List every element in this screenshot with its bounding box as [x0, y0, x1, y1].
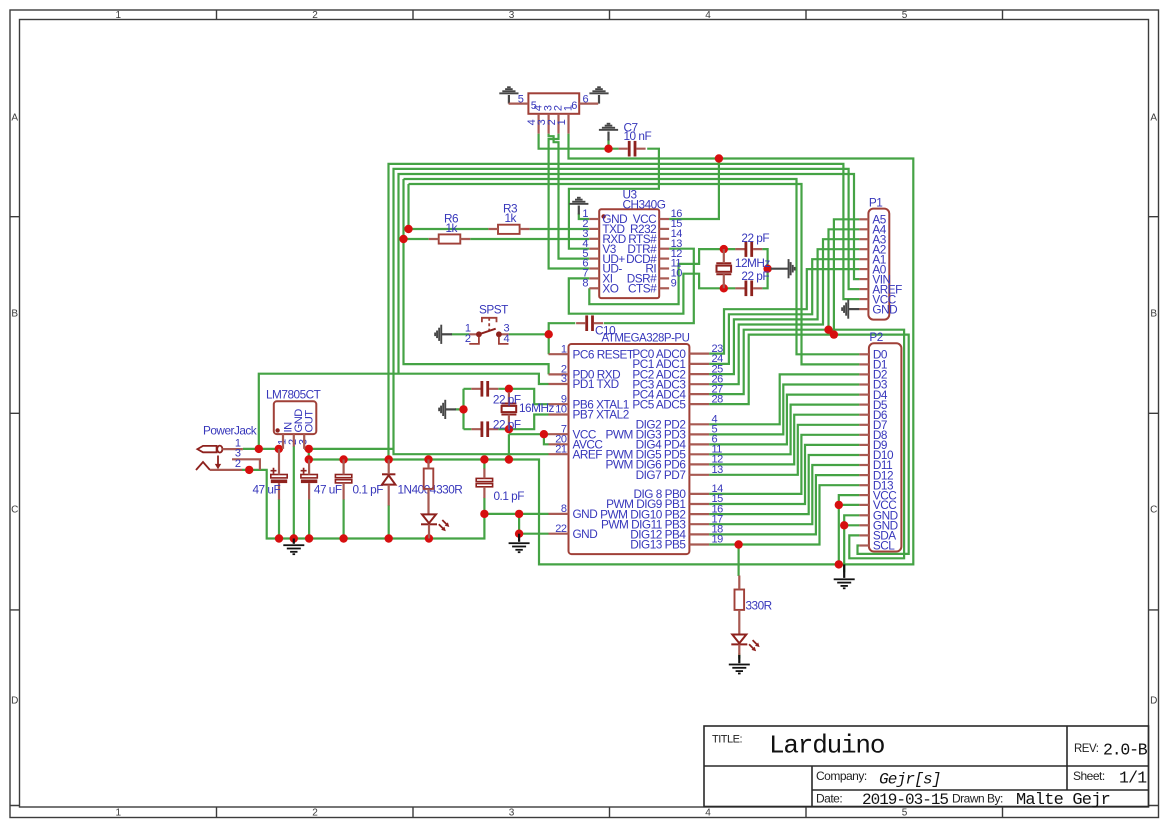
IC1 pin 15 PWM DIG9 PB1 — [689, 503, 709, 505]
svg-text:D: D — [1150, 696, 1157, 707]
wire: cap risers green parts — [279, 499, 389, 539]
svg-text:CTS#: CTS# — [628, 282, 657, 296]
svg-text:CH340G: CH340G — [623, 197, 666, 211]
junction: jack pin2 — [245, 466, 253, 474]
P2 pin 11 D10 — [859, 454, 869, 456]
wire: USB pin4 to C7 left / GND net — [539, 134, 619, 149]
junction: C3 bottom — [339, 534, 347, 542]
IC1 pin 1 PC6 RESET — [549, 353, 569, 355]
svg-text:330R: 330R — [746, 598, 772, 612]
junction: C7 left / GND — [604, 145, 612, 153]
wire: A5/SCL net — [709, 335, 909, 554]
U3 pin 7 XI — [589, 277, 599, 279]
P1 pin VCC — [859, 298, 868, 300]
svg-text:22 pF: 22 pF — [741, 231, 769, 245]
wire: R6 line to CH340 RXD — [404, 238, 590, 240]
junction: A5 vert / SCL line — [830, 330, 838, 338]
svg-text:PC6 RESET: PC6 RESET — [573, 347, 634, 361]
junction: C1 bottom — [275, 534, 283, 542]
svg-text:28: 28 — [712, 393, 724, 405]
wire: gnd stem above C7 — [607, 140, 609, 149]
svg-text:GND: GND — [573, 527, 598, 541]
wire: VCC bus line to P1 VCC — [389, 164, 860, 460]
USB connector J1 — [528, 93, 579, 114]
capacitor 47uF (C1) — [271, 475, 287, 478]
wire: LM7805 gnd stem — [293, 446, 295, 539]
wire: AREF net P1 to ATMEGA pin21 — [394, 169, 860, 454]
junction: C1 top — [275, 445, 283, 453]
wire: 16MHz top cap line to ATMEGA pin9 — [464, 389, 549, 404]
capacitor C10 — [585, 315, 588, 331]
svg-text:0.1 pF: 0.1 pF — [494, 489, 525, 503]
IC1 pin 25 PC2 ADC2 — [689, 373, 709, 375]
wire: D2 net ATMEGA to P2 — [709, 374, 859, 424]
resistor 330R (power) — [424, 469, 434, 489]
U3 pin 14 RTS# — [659, 238, 669, 240]
U3 pin 3 RXD — [589, 238, 599, 240]
wire: 7805 OUT short rail — [304, 448, 393, 450]
resistor R6 1k — [439, 234, 461, 243]
P2 pin 8 D7 — [859, 424, 869, 426]
svg-text:PowerJack: PowerJack — [203, 423, 257, 437]
wire: VIN from jack up to ATMEGA pin3 — [259, 374, 549, 449]
wire: D6 net ATMEGA to P2 — [709, 415, 859, 465]
U3 pin 5 UD+ — [589, 258, 599, 260]
junction: OUT stem — [305, 445, 313, 453]
svg-text:B: B — [11, 309, 18, 320]
P2 pin 4 D3 — [859, 383, 869, 385]
P2 pin 15 VCC — [859, 494, 869, 496]
svg-text:PD1 TXD: PD1 TXD — [573, 377, 619, 391]
IC1 pin 6 DIG4 PD4 — [689, 443, 709, 445]
wire: USB D- crossover to CH340 UD- pin6 — [549, 134, 590, 269]
IC1 pin 10 PB7 XTAL2 — [549, 413, 569, 415]
junction: VCC pin7 — [540, 430, 548, 438]
switch SPST — [482, 318, 497, 323]
wire: LED2 cathode to earth — [738, 654, 740, 659]
wire: VCC trunk from USB pin1 along bus to P2 side and VCC rail — [509, 134, 913, 565]
svg-text:1k: 1k — [505, 211, 517, 225]
junction: GND pin8 / C4 — [480, 510, 488, 518]
svg-text:Drawn By:: Drawn By: — [952, 792, 1003, 806]
svg-text:Larduino: Larduino — [769, 731, 884, 761]
P1 pin A5 — [859, 218, 868, 220]
wire: VIN bus line to P1 VIN — [399, 174, 860, 374]
junction: LED1 cathode — [425, 534, 433, 542]
P2 pin 3 D2 — [859, 373, 869, 375]
svg-text:1: 1 — [561, 343, 567, 355]
wire: power jack pin2/3 down to gnd rail — [242, 470, 549, 539]
P2 pin 20 SCL — [859, 544, 869, 546]
junction: VCC bus / CH340 VCC — [715, 154, 723, 162]
wire: D11 net ATMEGA to P2 — [709, 465, 859, 524]
capacitor 0.1pF (C4) — [476, 478, 492, 481]
svg-text:DIG13 PB5: DIG13 PB5 — [630, 538, 686, 552]
P2 pin 13 D12 — [859, 474, 869, 476]
junction: R6 / RX bus — [399, 235, 407, 243]
svg-text:XO: XO — [602, 282, 618, 296]
crystal 16MHz — [501, 404, 516, 415]
connector P2 — [869, 343, 902, 551]
svg-text:SCL: SCL — [873, 539, 895, 553]
IC1 pin 27 PC4 ADC4 — [689, 393, 709, 395]
earth ground below ATMEGA GND — [518, 534, 520, 542]
IC1 pin 28 PC5 ADC5 — [689, 403, 709, 405]
P1 pin A4 — [859, 228, 868, 230]
wire: 0.1pF cap near ATMEGA — [483, 460, 485, 514]
ground (stacked) above C7 — [607, 132, 609, 141]
U3 pin 13 DTR# — [659, 248, 669, 250]
P2 pin 19 SDA — [859, 534, 869, 536]
capacitor C7 10nF — [628, 141, 631, 157]
earth ground below P2 GND — [843, 564, 845, 578]
junction: 12MHz top — [720, 245, 728, 253]
svg-text:22 pF: 22 pF — [493, 418, 521, 432]
IC1 pin 9 PB6 XTAL1 — [549, 403, 569, 405]
junction: C3 top — [339, 455, 347, 463]
wire: RX bus line to P2 D0 — [404, 179, 860, 354]
U3 pin 15 R232 — [659, 228, 669, 230]
svg-text:OUT: OUT — [304, 410, 316, 433]
wire: ATMEGA gnd riser pin8 to pin22 — [519, 514, 548, 534]
IC1 pin 16 PWM DIG10 PB2 — [689, 513, 709, 515]
svg-text:B: B — [1150, 309, 1157, 320]
svg-text:1k: 1k — [446, 221, 458, 235]
voltage regulator LM7805CT — [274, 401, 317, 434]
capacitor 22pF upper (16MHz) — [481, 381, 484, 397]
P2 pin 5 D4 — [859, 394, 869, 396]
P1 pin AREF — [859, 288, 868, 290]
junction: 12MHz bottom — [720, 284, 728, 292]
svg-text:C: C — [1150, 505, 1157, 516]
wire: 16MHz left gnd rail — [455, 389, 463, 429]
P2 pin 7 D6 — [859, 414, 869, 416]
IC1 pin 8 GND — [549, 513, 569, 515]
P1 pin A2 — [859, 248, 868, 250]
junction: R3 / TX bus — [404, 225, 412, 233]
junction: 16MHz gnd — [459, 405, 467, 413]
IC U3 CH340G — [599, 209, 659, 298]
P1 pin A3 — [859, 238, 868, 240]
wire: D9 net ATMEGA to P2 — [709, 445, 859, 504]
diode 1N4004 — [382, 473, 395, 475]
IC1 pin 2 PD0 RXD — [549, 373, 569, 375]
junction: VCC line / P2 VCC vert — [835, 560, 843, 568]
U3 pin 12 DCD# — [659, 258, 669, 260]
svg-text:1/1: 1/1 — [1119, 769, 1147, 788]
wire: power jack pin1 rail — [243, 448, 283, 450]
svg-text:21: 21 — [555, 443, 567, 455]
svg-text:22 pF: 22 pF — [741, 269, 769, 283]
junction: P2 GND2 — [840, 521, 848, 529]
ground (stacked) USB left — [508, 95, 510, 104]
svg-text:10: 10 — [555, 404, 567, 416]
wire: C7 right to CH340 V3 pin 4 — [569, 149, 659, 249]
wire: 12MHz top line through caps to right rail — [724, 249, 768, 288]
svg-text:19: 19 — [712, 534, 724, 546]
P1 pin A1 — [859, 258, 868, 260]
capacitor 47uF (C2) — [301, 475, 317, 478]
IC1 pin 22 GND — [549, 533, 569, 535]
svg-text:8: 8 — [582, 278, 588, 290]
wire: D13 net ATMEGA to P2 — [709, 485, 859, 544]
wire: SPST right to reset junction — [509, 333, 549, 335]
svg-text:22 pF: 22 pF — [493, 392, 521, 406]
ground (sideways) 12MHz right — [771, 268, 788, 270]
IC1 pin 17 PWM DIG11 PB3 — [689, 523, 709, 525]
wire: 5V rail2 in power area — [309, 458, 509, 460]
earth ground below LED2 — [738, 655, 740, 663]
ground (stacked) CH340 pin1 — [578, 206, 580, 215]
svg-text:TITLE:: TITLE: — [712, 734, 742, 746]
P2 pin 14 D13 — [859, 484, 869, 486]
wire: CH340 DTR pin13 down to C10 — [604, 249, 694, 324]
U3 pin 10 DSR# — [659, 277, 669, 279]
ground (stacked) USB right — [598, 95, 600, 104]
svg-text:2: 2 — [465, 333, 471, 345]
crystal 12MHz — [716, 263, 731, 274]
svg-text:330R: 330R — [436, 482, 462, 496]
svg-text:Sheet:: Sheet: — [1073, 769, 1105, 783]
svg-text:1: 1 — [562, 105, 574, 111]
svg-text:2019-03-15: 2019-03-15 — [862, 791, 948, 809]
IC ATMEGA328P-PU — [569, 344, 690, 554]
title block — [704, 726, 1149, 807]
P2 pin 17 GND — [859, 514, 869, 516]
ground (sideways) SPST left — [442, 333, 453, 335]
P2 pin 16 VCC — [859, 504, 869, 506]
connector P1 — [868, 209, 889, 320]
junction: C4 top — [480, 455, 488, 463]
wire: CH340 VCC pin16 riser to VCC bus — [669, 159, 719, 220]
wire: TX net bus line to P2 D1 — [409, 184, 860, 364]
wire: P2 VCC pins — [839, 495, 860, 564]
svg-text:PB7 XTAL2: PB7 XTAL2 — [573, 408, 629, 422]
svg-text:GND: GND — [872, 302, 897, 316]
LED1 — [422, 514, 436, 523]
wire: A4/SDA net — [709, 330, 904, 559]
svg-text:10 nF: 10 nF — [624, 129, 652, 143]
wire: D12 net ATMEGA to P2 — [709, 475, 859, 534]
IC1 pin 12 PWM DIG6 PD6 — [689, 463, 709, 465]
IC1 pin 21 AREF — [549, 453, 569, 455]
resistor R3 1k — [498, 225, 520, 234]
wire: D4 net ATMEGA to P2 — [709, 395, 859, 445]
wire: 16MHz bottom cap line to ATMEGA pin10 — [464, 415, 549, 430]
wire: CH340 XO pin8 around to 12MHz top — [589, 249, 724, 304]
resistor 330R (LED2) — [735, 590, 745, 610]
wire: D10 net ATMEGA to P2 — [709, 455, 859, 514]
P2 pin 9 D8 — [859, 434, 869, 436]
svg-text:0.1 pF: 0.1 pF — [353, 482, 384, 496]
U3 pin 11 RI — [659, 267, 669, 269]
wire: C10 left to reset junction — [549, 323, 576, 354]
capacitor 0.1pF (C3) — [335, 475, 351, 478]
P2 pin 18 GND — [859, 524, 869, 526]
svg-text:C: C — [11, 505, 18, 516]
P1 pin VIN — [859, 278, 868, 280]
P2 pin 2 D1 — [859, 363, 869, 365]
IC1 pin 5 PWM DIG3 PD3 — [689, 433, 709, 435]
svg-text:6: 6 — [582, 93, 588, 105]
P1 pin A0 — [859, 268, 868, 270]
ground (sideways) 16MHz left — [446, 408, 457, 410]
svg-text:Date:: Date: — [816, 792, 842, 806]
junction: D1 top / VCC vert — [385, 455, 393, 463]
svg-text:Malte Gejr: Malte Gejr — [1016, 791, 1110, 810]
U3 pin 16 VCC — [659, 218, 669, 220]
wire: OUT stem drop to rail2 — [308, 449, 310, 460]
svg-text:SPST: SPST — [479, 302, 508, 316]
U3 pin 4 V3 — [589, 248, 599, 250]
svg-text:A: A — [1150, 113, 1157, 124]
junction: A4 vert / SDA line — [824, 326, 832, 334]
IC1 pin 20 AVCC — [549, 443, 569, 445]
P2 pin 1 D0 — [859, 353, 869, 355]
svg-text:12MHz: 12MHz — [735, 256, 770, 270]
wire: P2 GND pins to earth — [844, 515, 859, 572]
IC1 pin 26 PC3 ADC3 — [689, 383, 709, 385]
P1 pin GND — [859, 308, 868, 310]
IC1 pin 4 DIG2 PD2 — [689, 423, 709, 425]
svg-text:P2: P2 — [869, 330, 882, 344]
svg-text:47 uF: 47 uF — [314, 482, 342, 496]
ground (sideways) P1 GND — [849, 308, 860, 310]
junction: P2 VCC2 — [835, 501, 843, 509]
svg-text:3: 3 — [561, 373, 567, 385]
svg-text:8: 8 — [561, 503, 567, 515]
IC1 pin 19 DIG13 PB5 — [689, 543, 709, 545]
capacitor 22pF lower (16MHz) — [481, 421, 484, 437]
wire: D3 net ATMEGA to P2 — [709, 385, 859, 435]
junction: LM gnd — [290, 534, 298, 542]
U3 pin 2 TXD — [589, 228, 599, 230]
wire: SPST left to gnd — [451, 333, 469, 335]
junction: rail2 start — [305, 455, 313, 463]
LED2 — [732, 635, 746, 644]
IC1 pin 3 PD1 TXD — [549, 383, 569, 385]
wire: USB D+ crossover to CH340 UD+ pin5 — [549, 134, 590, 259]
svg-text:2.0-B: 2.0-B — [1103, 741, 1148, 760]
junction: VCC riser / rail2 — [505, 455, 513, 463]
svg-text:2: 2 — [235, 458, 241, 470]
svg-text:47 uF: 47 uF — [253, 482, 281, 496]
capacitor 22pF lower (12MHz) — [745, 281, 748, 297]
P2 pin 10 D9 — [859, 444, 869, 446]
junction: 16MHz top — [505, 385, 513, 393]
svg-text:13: 13 — [712, 464, 724, 476]
junction: R330 top — [424, 455, 432, 463]
wire: R3 line to CH340 TXD — [409, 228, 590, 230]
svg-text:GND: GND — [573, 507, 598, 521]
junction: VIN vert — [255, 445, 263, 453]
svg-text:LM7805CT: LM7805CT — [266, 388, 321, 402]
IC1 pin 24 PC1 ADC1 — [689, 363, 709, 365]
wire: VCC to ATMEGA pin7/pin20 — [509, 434, 549, 459]
svg-text:REV:: REV: — [1074, 743, 1099, 755]
capacitor 22pF upper (12MHz) — [745, 241, 748, 257]
wire: D8 net ATMEGA to P2 — [709, 435, 859, 494]
junction: C2 bottom — [305, 534, 313, 542]
wire: D5 net ATMEGA to P2 — [709, 405, 859, 455]
svg-text:16MHz: 16MHz — [519, 401, 554, 415]
wire: RX net: bus line, R6 junction, ATMEGA pin2 — [404, 179, 549, 374]
svg-text:AREF: AREF — [573, 447, 603, 461]
IC1 pin 13 DIG7 PD7 — [689, 474, 709, 476]
IC1 pin 11 PWM DIG5 PD5 — [689, 453, 709, 455]
svg-text:A: A — [11, 113, 18, 124]
U3 pin 6 UD- — [589, 267, 599, 269]
P2 pin 6 D5 — [859, 404, 869, 406]
svg-text:Company:: Company: — [816, 769, 867, 783]
wire: CH340 GND pin1 from gnd symbol — [579, 214, 590, 220]
junction: pin19 / 330R — [734, 540, 742, 548]
junction: GND pin22 / earth — [515, 530, 523, 538]
svg-text:9: 9 — [671, 278, 677, 290]
svg-text:P1: P1 — [869, 196, 882, 210]
P2 pin 12 D11 — [859, 464, 869, 466]
svg-text:Gejr[s]: Gejr[s] — [879, 771, 941, 789]
IC1 pin 18 DIG12 PB4 — [689, 533, 709, 535]
U3 pin 1 GND — [589, 218, 599, 220]
junction: GND pin8 riser — [515, 510, 523, 518]
earth ground below LM7805 — [293, 539, 295, 544]
wire: ATMEGA pin23-28 to P1 A0-A5 — [709, 269, 859, 354]
svg-text:22: 22 — [555, 523, 567, 535]
svg-text:5: 5 — [518, 93, 524, 105]
svg-text:D: D — [11, 696, 18, 707]
IC1 pin 23 PC0 ADC0 — [689, 353, 709, 355]
junction: 16MHz bottom — [505, 425, 513, 433]
IC1 pin 14 DIG 8 PB0 — [689, 493, 709, 495]
wire: D7 net ATMEGA to P2 — [709, 425, 859, 475]
U3 pin 9 CTS# — [659, 287, 669, 289]
junction: 12MHz gnd — [763, 265, 771, 273]
U3 pin 8 XO — [589, 287, 599, 289]
junction: RESET node — [545, 330, 553, 338]
wire: CH340 XI pin7 around to 12MHz bottom — [569, 274, 724, 314]
wire: 330R/LED from ATMEGA pin19 — [737, 545, 739, 577]
svg-text:ATMEGA328P-PU: ATMEGA328P-PU — [602, 333, 690, 345]
junction: D1 bottom — [385, 534, 393, 542]
svg-text:4: 4 — [504, 333, 510, 345]
IC1 pin 7 VCC — [549, 433, 569, 435]
svg-text:1: 1 — [556, 119, 568, 125]
wire: 12MHz gnd stem — [768, 268, 771, 270]
PowerJack connector — [197, 446, 216, 452]
svg-text:DIG7 PD7: DIG7 PD7 — [636, 468, 686, 482]
svg-text:PC5 ADC5: PC5 ADC5 — [632, 397, 686, 411]
